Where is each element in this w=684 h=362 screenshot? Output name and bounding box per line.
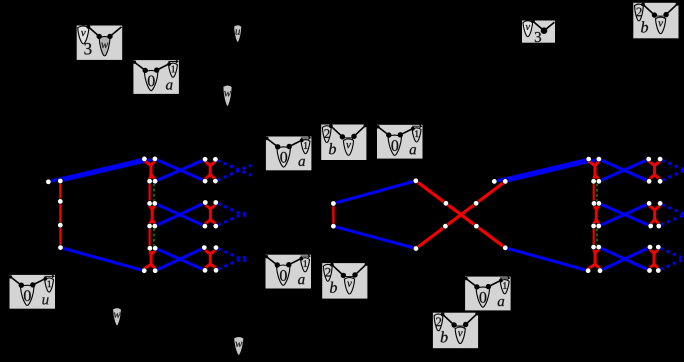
subtree cone 1 (vec) of mid-right [412, 128, 421, 142]
label b of bottom-right-low [441, 331, 448, 342]
label a of mid-left [298, 159, 304, 166]
red connector right-tree right column group 1 [649, 161, 660, 179]
subtree cone u top [234, 25, 242, 43]
label 3 of top-left [84, 43, 91, 54]
node left of bottom-right-low [451, 322, 456, 327]
wire to top-right corner of bottom-right-low [466, 314, 477, 325]
wire to top-left corner of bottom-mid-left [267, 257, 278, 265]
subtree cone v (vec) of bottom-right-low [455, 327, 465, 344]
green dashed chain edge M1-M2 [153, 184, 155, 202]
cone-2 corner node of mid-center [329, 124, 333, 128]
red chain edge M1-M2 [149, 183, 151, 201]
gadget box "b" bottom-right-low [433, 312, 479, 348]
node left of upper-left [143, 68, 148, 73]
corner node of mid-left [265, 137, 268, 140]
red connector right column group 1 [205, 161, 215, 179]
cone-2 corner node of bottom-mid [330, 263, 334, 267]
wire blue dotted exit up [218, 212, 247, 225]
label a of bottom-mid-left [298, 277, 304, 284]
gadget box "3" top-right [522, 19, 555, 42]
red connector right-tree middle column group 3 [588, 249, 600, 269]
label a of mid-right [410, 147, 416, 154]
corner node of mid-right [376, 125, 379, 128]
red crossing edge ascending [416, 181, 505, 248]
node right of mid-right [398, 132, 403, 137]
wire blue crossing up [155, 203, 206, 227]
label b of top-right-corner [641, 21, 648, 32]
node right of top-left [107, 34, 112, 39]
wire blue dotted exit down [218, 249, 246, 262]
node right of mid-left [287, 144, 292, 149]
subtree cone 0 of bottom-right-mid [476, 287, 490, 307]
wire blue crossing up [155, 248, 204, 271]
subtree cone 2 of bottom-right-low [434, 314, 443, 331]
subtree cone 1 (vec) of upper-left [169, 63, 178, 77]
node left of top-left [97, 34, 102, 39]
red connector right-tree right column group 3 [650, 249, 659, 268]
red connector right column group 2 [205, 205, 216, 225]
wire to top-right corner of top-left [110, 27, 122, 37]
middle tree: red edge left pair [332, 204, 334, 227]
gadget box "a" mid-left [265, 136, 311, 170]
wire blue crossing up [599, 159, 649, 181]
corner node of bottom-right-mid [464, 277, 467, 280]
wire blue L2 to bottom apex [333, 226, 416, 248]
wire blue dotted exit up [661, 215, 684, 225]
subtree cone 1 (vec) of bottom-mid-left [301, 258, 310, 272]
subtree cone 0 of mid-left [277, 147, 291, 167]
subtree cone 0 of bottom-mid-left [277, 265, 291, 285]
nodes of middle tree [331, 178, 479, 251]
subtree cone 0 of upper-left [144, 70, 158, 90]
red connector middle column group 2 [150, 205, 155, 224]
wire blue L1 to top apex [333, 181, 415, 204]
node left of mid-left [275, 144, 280, 149]
node right of bottom-right-low [463, 322, 468, 327]
gadget box "a" bottom-right-mid [464, 276, 510, 310]
cone-1 corner node of upper-left [167, 62, 171, 66]
gadget box "b" top-right-corner [633, 2, 679, 38]
wire to cone-1 of bottom-left [33, 279, 45, 285]
red chain edge right M1-M2 [593, 183, 595, 201]
cone-2 corner node of bottom-right-low [441, 313, 445, 317]
wire blue dotted exit down [218, 203, 247, 216]
node right of mid-center [351, 134, 356, 139]
gadget box "a" mid-right [376, 125, 422, 159]
left tree: spine red edge [59, 181, 62, 248]
node left of bottom-mid [341, 273, 346, 278]
subtree cone v of top-left [78, 26, 89, 44]
wire blue A-prime to right middle column top-left [494, 159, 588, 181]
subtree cone w upper [223, 85, 232, 106]
node right of bottom-left [30, 282, 35, 287]
subtree cone 2 of bottom-mid [323, 264, 332, 281]
wire blue dotted exit up [218, 257, 246, 270]
gadget box "3" top-left [77, 25, 123, 60]
wire to top-left corner of mid-right [378, 127, 389, 135]
wire from cone-2 of mid-center [331, 126, 342, 137]
wire to cone-1 of mid-right [400, 129, 412, 135]
subtree cone 1 (vec) of bottom-left [45, 278, 54, 292]
wire V of top-right [533, 21, 555, 31]
red connector middle column group 1 [144, 161, 155, 179]
gadget box "a" upper-left [133, 60, 179, 94]
wire from cone-v of top-left [88, 27, 99, 37]
wire to top-left corner of mid-left [267, 139, 278, 147]
corner node right of top-right-corner [676, 2, 679, 5]
subtree cone 0 of bottom-left [21, 285, 35, 305]
wire blue B-prime to right middle column top-right [505, 159, 599, 181]
corner node right of bottom-mid [365, 263, 368, 266]
cone-v corner node of top-right [531, 19, 535, 23]
wire blue dotted exit up [660, 259, 684, 270]
cone-1 corner node of mid-right [411, 127, 415, 131]
wire blue crossing up [155, 159, 205, 181]
wire blue crossing down [599, 203, 651, 226]
red chain edge right M2-M3 [593, 228, 595, 245]
corner node of bottom-left [9, 275, 12, 278]
cone-1 corner node of bottom-right-mid [499, 279, 503, 283]
shaded subtree cone w of top-left [99, 36, 110, 55]
red connector right-tree middle column group 1 [589, 161, 599, 179]
subtree cone w bottom-mid [234, 337, 244, 356]
cone-1 corner node of bottom-left [43, 277, 47, 281]
wire blue crossing down [599, 159, 649, 181]
subtree cone v of top-right [523, 21, 533, 37]
green dashed chain edge right M2-M3 [596, 228, 598, 245]
wire blue dotted exit down [662, 204, 684, 214]
subtree cone 2 of mid-center [322, 126, 331, 143]
subtree cone 1 (vec) of mid-left [301, 140, 310, 154]
wire blue dotted exit down [662, 160, 684, 170]
wire blue B to middle column top-right [60, 159, 155, 181]
wire from cone-2 of bottom-right-low [443, 314, 454, 325]
wire to top-left corner of bottom-left [11, 277, 22, 285]
wire to top-left corner of bottom-right-mid [466, 279, 477, 287]
wire blue spine bottom to middle column bottom-left [61, 248, 145, 271]
cone-v corner node of top-left [86, 25, 90, 29]
wire from cone-2 of bottom-mid [332, 265, 343, 276]
node right of bottom-right-mid [486, 284, 491, 289]
red connector right column group 3 [204, 250, 216, 269]
corner node of bottom-mid-left [265, 255, 268, 258]
label b of mid-center [329, 143, 336, 154]
corner node right of bottom-right-low [475, 312, 478, 315]
subtree cone v (vec) of bottom-mid [344, 277, 354, 294]
red connector right-tree right column group 2 [649, 205, 660, 224]
red connector right-tree middle column group 2 [594, 205, 599, 224]
wire blue A to middle column top-left [48, 159, 144, 182]
gadget box "u" bottom-left [9, 275, 55, 309]
gadget box "b" bottom-mid [322, 263, 368, 299]
wire blue crossing down [155, 159, 205, 181]
label u of bottom-left [42, 297, 48, 304]
wire blue dotted exit up [217, 165, 251, 180]
node left of mid-center [340, 134, 345, 139]
label 3 of top-right [535, 32, 541, 42]
node right of bottom-mid-left [286, 262, 291, 267]
wire blue crossing down [599, 247, 650, 270]
corner node right of mid-center [364, 124, 367, 127]
wire blue crossing up [600, 247, 650, 271]
wire blue crossing down [155, 203, 205, 226]
wire to top-left corner of upper-left [134, 62, 145, 70]
subtree cone v (vec) of top-right-corner [656, 17, 666, 34]
node right of top-right-corner [663, 12, 668, 17]
node left of bottom-mid-left [275, 262, 280, 267]
wire to top-right corner of top-right-corner [666, 4, 677, 15]
wire to top-right corner of mid-center [354, 126, 365, 137]
green dashed chain edge right M1-M2 [596, 184, 598, 202]
node left of bottom-right-mid [474, 284, 479, 289]
wire from cone-2 of top-right-corner [643, 5, 654, 16]
cone-2 corner node of top-right-corner [641, 3, 645, 7]
wire to cone-1 of upper-left [157, 64, 169, 70]
nodes of right tree [492, 156, 663, 273]
subtree cone 1 (vec) of bottom-right-mid [500, 280, 509, 294]
wire blue dotted exit down [660, 248, 684, 259]
wire to cone-1 of bottom-mid-left [289, 259, 301, 265]
subtree cone 0 of mid-right [388, 135, 402, 155]
label a of bottom-right-mid [498, 299, 504, 306]
label a of upper-left [166, 82, 172, 89]
red crossing edge descending [416, 181, 506, 248]
wire blue crossing up [599, 203, 649, 226]
wire to cone-1 of mid-left [289, 140, 301, 146]
gadget box "b" mid-center [321, 124, 367, 160]
wire blue dotted exit down [217, 160, 251, 175]
wire to cone-1 of bottom-right-mid [488, 280, 500, 286]
corner node of upper-left [133, 60, 136, 63]
wire blue crossing down [155, 248, 205, 270]
label b of bottom-mid [330, 282, 337, 293]
node left of top-right-corner [652, 12, 657, 17]
node right of bottom-mid [352, 272, 357, 277]
red chain edge M2-M3 [149, 228, 151, 246]
wire to top-right corner of bottom-mid [355, 264, 366, 275]
subtree cone 2 of top-right-corner [635, 4, 644, 21]
subtree cone w bottom-left [113, 308, 122, 326]
subtree cone v (vec) of mid-center [343, 139, 353, 156]
node left of bottom-left [19, 283, 24, 288]
cone-1 corner node of mid-left [300, 139, 304, 143]
cone-1 corner node of bottom-mid-left [299, 257, 303, 261]
green dashed chain edge M2-M3 [153, 229, 155, 247]
red connector middle column group 3 [144, 250, 155, 269]
node left of mid-right [386, 132, 391, 137]
wire blue dotted exit up [662, 171, 684, 181]
wire blue bottom to right middle column bottom-left [505, 248, 588, 271]
nodes of left tree [46, 156, 219, 273]
node of top-right [541, 27, 548, 34]
node right of upper-left [154, 67, 159, 72]
gadget box "a" bottom-mid-left [265, 255, 311, 289]
